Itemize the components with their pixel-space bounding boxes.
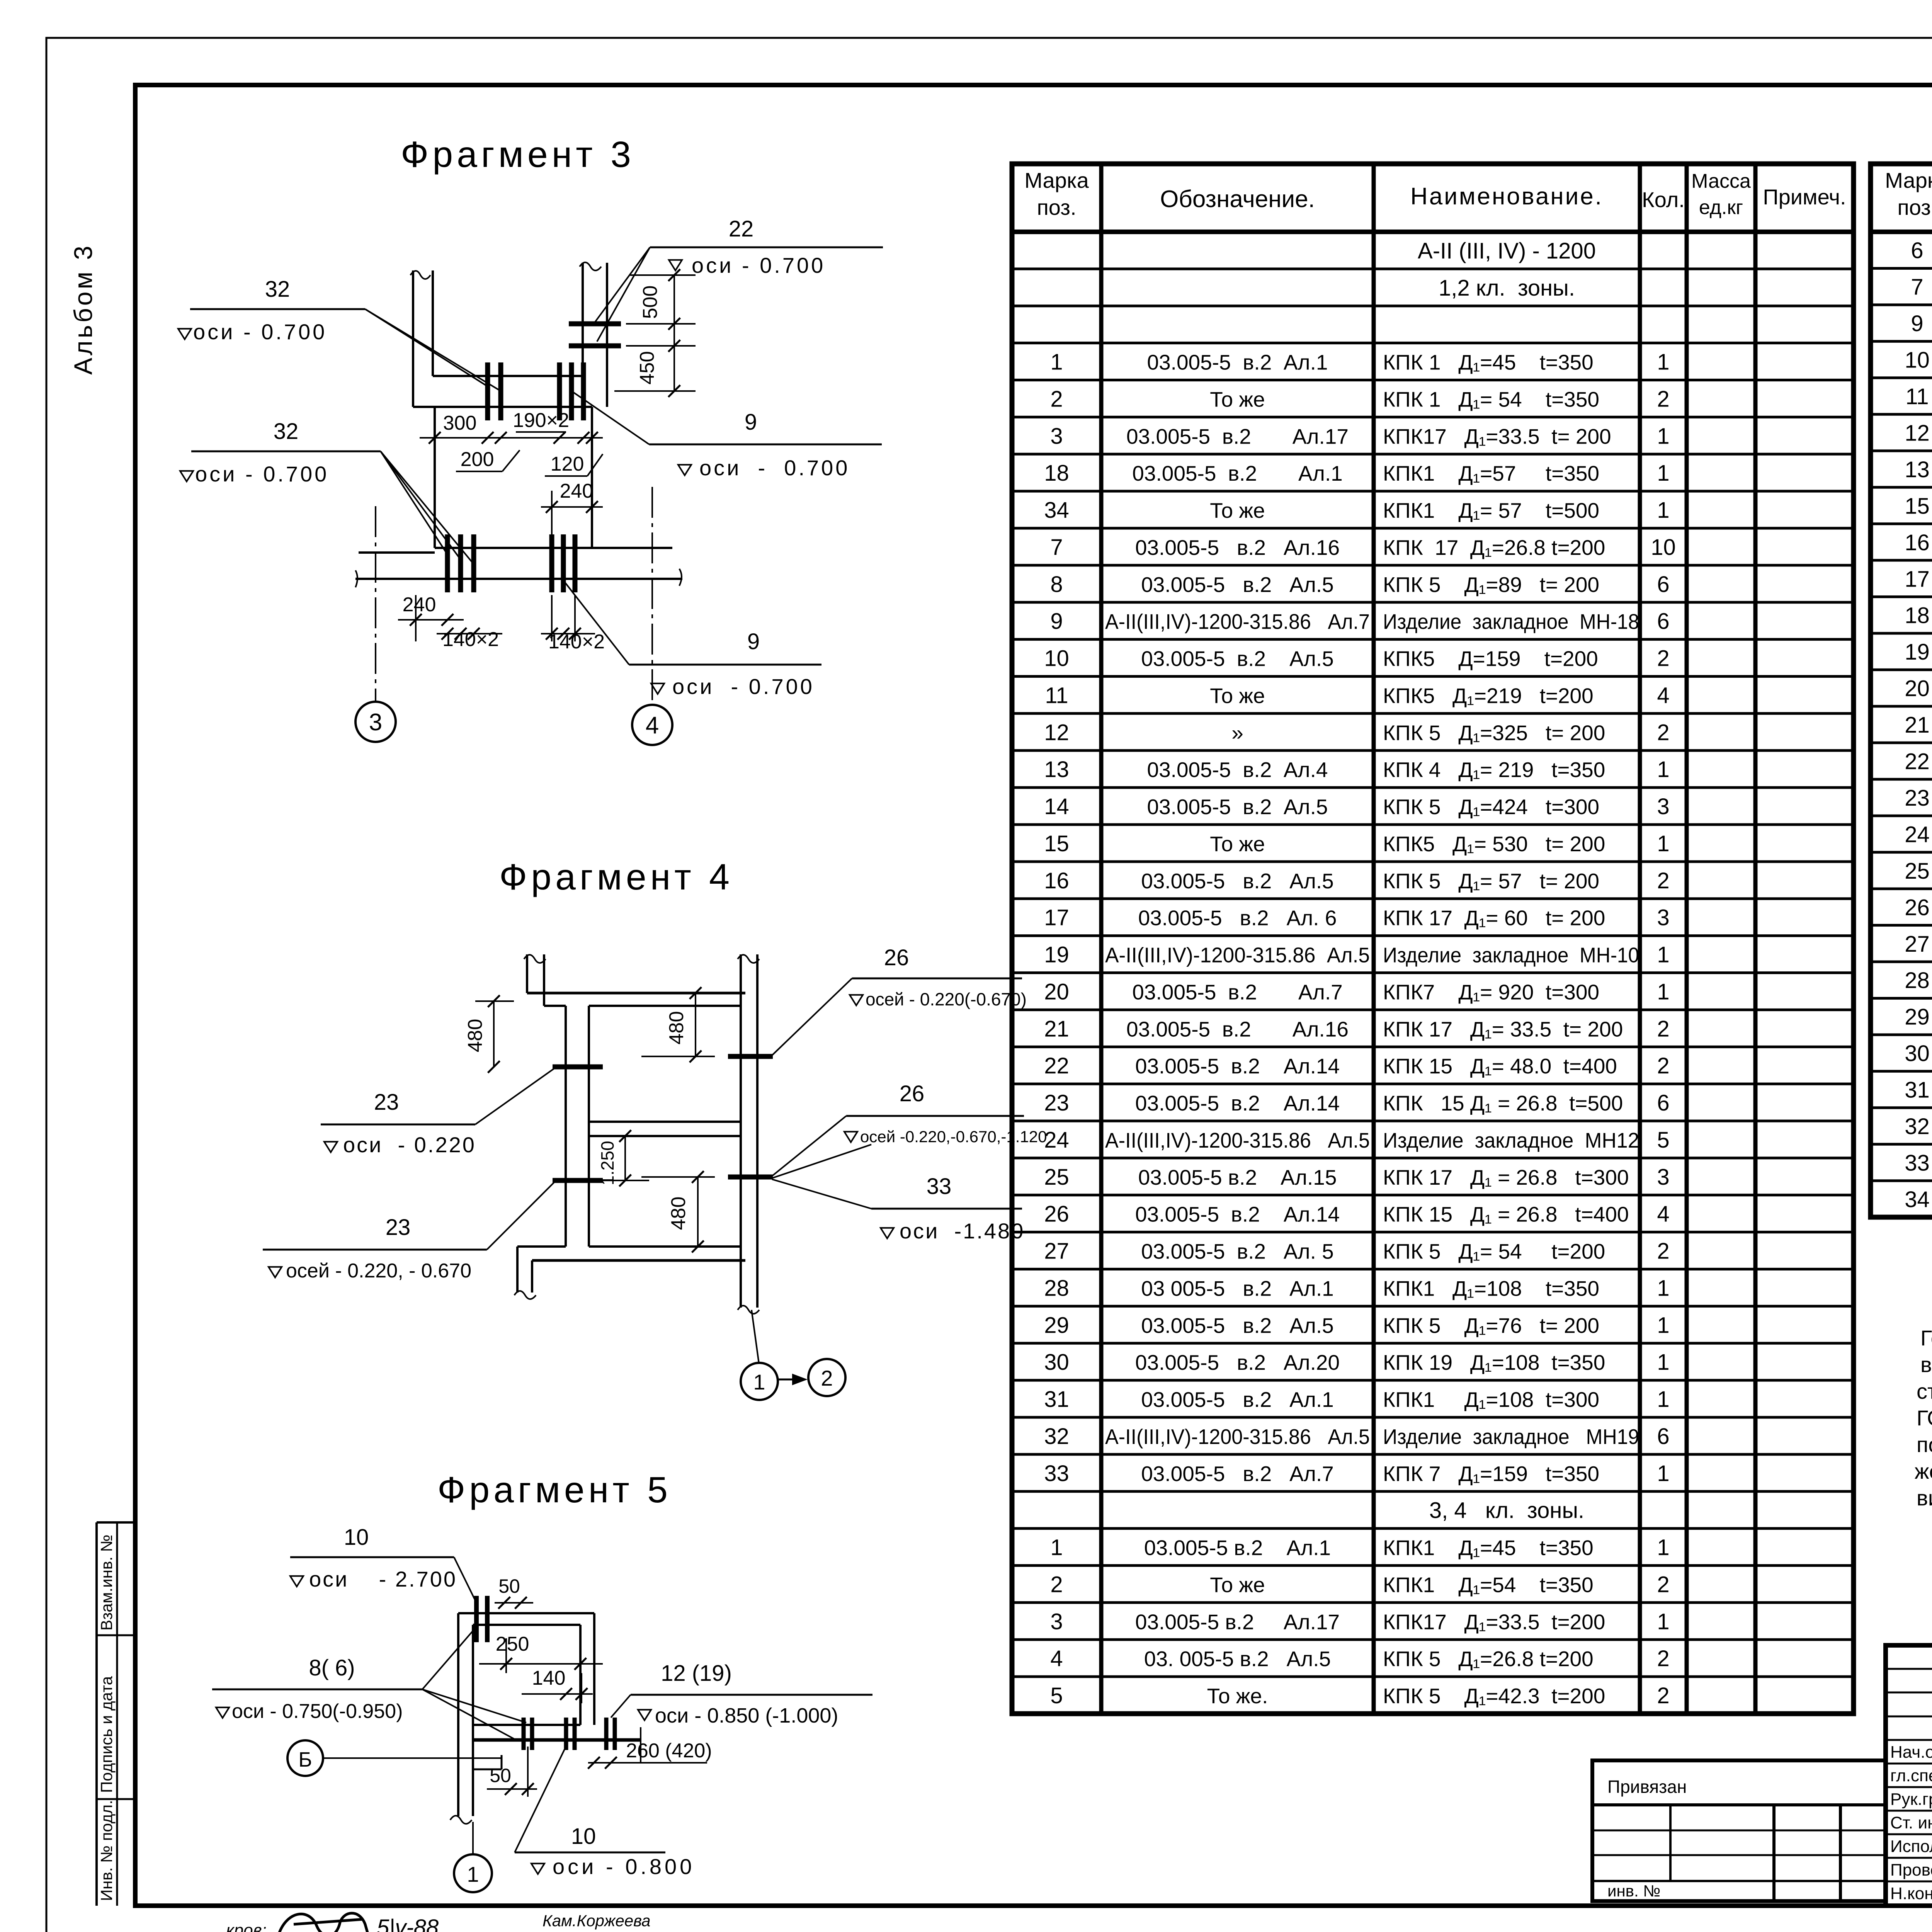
svg-text:2: 2 <box>1050 386 1063 412</box>
svg-text:А-II(III,IV)-1200-315.86 Ал.5: А-II(III,IV)-1200-315.86 Ал.5 <box>1105 943 1370 967</box>
svg-text:Изделие закладное МН19: Изделие закладное МН19 <box>1383 1425 1639 1449</box>
svg-text:21: 21 <box>1905 713 1930 738</box>
svg-text:То же: То же <box>1210 1573 1265 1597</box>
svg-text:26: 26 <box>884 945 909 970</box>
svg-text:31: 31 <box>1044 1387 1069 1412</box>
svg-text:оси - 0.700: оси - 0.700 <box>195 462 329 486</box>
frag3 horizontal dimension chain <box>420 437 603 439</box>
svg-text:03.005-5 в.2 Ал.5: 03.005-5 в.2 Ал.5 <box>1147 795 1328 819</box>
table header row line <box>1871 230 1932 234</box>
svg-text:03.005-5 в.2 Ал.5: 03.005-5 в.2 Ал.5 <box>1141 647 1334 671</box>
frag4 leader 26 upper <box>771 978 852 1056</box>
svg-text:КПК5 Д₁= 530 t= 200: КПК5 Д₁= 530 t= 200 <box>1383 832 1605 856</box>
svg-text:17: 17 <box>1044 905 1069 930</box>
svg-text:28: 28 <box>1044 1276 1069 1301</box>
svg-text:осей - 0.220(-0.670): осей - 0.220(-0.670) <box>866 989 1027 1009</box>
svg-text:оси - 2.700: оси - 2.700 <box>309 1567 457 1591</box>
svg-text:6: 6 <box>1657 609 1669 634</box>
svg-text:1: 1 <box>753 1370 765 1394</box>
svg-text:4: 4 <box>1657 683 1669 708</box>
svg-text:03.005-5 в.2 Ал.20: 03.005-5 в.2 Ал.20 <box>1135 1350 1340 1374</box>
svg-text:1: 1 <box>1657 423 1669 449</box>
left margin stacked cells <box>97 1521 135 1524</box>
svg-text:03.005-5 в.2 Ал.1: 03.005-5 в.2 Ал.1 <box>1144 1536 1331 1560</box>
svg-text:Примеч.: Примеч. <box>1763 185 1846 209</box>
svg-text:2: 2 <box>1657 1053 1669 1078</box>
svg-text:5: 5 <box>1657 1128 1669 1153</box>
frag4 middle-left wall <box>565 1006 567 1247</box>
svg-text:30: 30 <box>1905 1041 1930 1066</box>
privyazan block outer <box>1592 1760 1886 1901</box>
svg-text:1: 1 <box>1657 757 1669 782</box>
svg-text:КПК 17 Д₁= 60 t= 200: КПК 17 Д₁= 60 t= 200 <box>1383 906 1605 930</box>
svg-text:Н.контр.: Н.контр. <box>1890 1884 1932 1903</box>
svg-text:Взам.инв. №: Взам.инв. № <box>97 1534 116 1631</box>
svg-text:26: 26 <box>1905 895 1930 920</box>
frag3 rebar ticks bottom band left <box>445 534 450 592</box>
title block outer border <box>1886 1645 1932 1906</box>
svg-text:1: 1 <box>1657 461 1669 486</box>
svg-text:Изделие закладное МН-18: Изделие закладное МН-18 <box>1383 610 1639 634</box>
svg-text:14: 14 <box>1044 794 1069 819</box>
svg-text:КПК5 Д=159 t=200: КПК5 Д=159 t=200 <box>1383 647 1598 671</box>
svg-text:23: 23 <box>1044 1090 1069 1116</box>
privyazan grid <box>1669 1805 1672 1881</box>
svg-text:3, 4 кл. зоны.: 3, 4 кл. зоны. <box>1429 1498 1584 1523</box>
title block small top rows <box>1886 1668 1932 1670</box>
table row lines <box>1871 267 1932 270</box>
svg-text:оси -1.480: оси -1.480 <box>900 1219 1025 1243</box>
svg-text:1,2 кл. зоны.: 1,2 кл. зоны. <box>1439 276 1575 301</box>
privyazan cell line <box>1592 1803 1886 1806</box>
svg-text:03.005-5 в.2 Ал.1: 03.005-5 в.2 Ал.1 <box>1147 350 1328 374</box>
svg-text:3: 3 <box>1050 1609 1063 1634</box>
svg-text:То же: То же <box>1210 832 1265 856</box>
svg-text:Обозначение.: Обозначение. <box>1160 186 1315 213</box>
svg-text:КПК 5 Д₁= 54 t=200: КПК 5 Д₁= 54 t=200 <box>1383 1240 1605 1264</box>
svg-text:Ст. инж.: Ст. инж. <box>1890 1813 1932 1832</box>
svg-text:осей - 0.220, - 0.670: осей - 0.220, - 0.670 <box>286 1260 471 1282</box>
svg-text:25: 25 <box>1044 1165 1069 1190</box>
svg-text:Фрагмент 4: Фрагмент 4 <box>499 857 733 898</box>
svg-text:КПК 5 Д₁=424 t=300: КПК 5 Д₁=424 t=300 <box>1383 795 1599 819</box>
frag3 rebar ticks right wall <box>569 321 621 327</box>
svg-text:Марка: Марка <box>1885 168 1932 192</box>
frag4 top-left stub <box>526 954 528 993</box>
frag5 leader 12(19) <box>611 1695 631 1718</box>
svg-text:То же.: То же. <box>1207 1684 1268 1708</box>
svg-text:2: 2 <box>1657 1683 1669 1708</box>
svg-text:19: 19 <box>1044 942 1069 968</box>
svg-text:КПК5 Д₁=219 t=200: КПК5 Д₁=219 t=200 <box>1383 684 1594 707</box>
svg-text:КПК 5 Д₁=76 t= 200: КПК 5 Д₁=76 t= 200 <box>1383 1313 1599 1337</box>
svg-text:кров:: кров: <box>226 1921 267 1932</box>
svg-text:10: 10 <box>1651 535 1676 560</box>
svg-text:260 (420): 260 (420) <box>626 1740 712 1762</box>
svg-text:120: 120 <box>551 453 584 475</box>
svg-text:Альбом 3: Альбом 3 <box>69 243 97 375</box>
svg-text:19: 19 <box>1905 639 1930 665</box>
svg-text:вии: вии <box>1917 1486 1932 1510</box>
svg-text:9: 9 <box>1911 311 1923 336</box>
svg-text:4: 4 <box>646 712 659 739</box>
frag5 circle B <box>287 1740 323 1776</box>
svg-text:03.005-5 в.2 Ал.16: 03.005-5 в.2 Ал.16 <box>1135 536 1340 560</box>
svg-text:1: 1 <box>1657 979 1669 1004</box>
svg-text:Привязан: Привязан <box>1607 1777 1687 1797</box>
svg-text:КПК 19 Д₁=108 t=350: КПК 19 Д₁=108 t=350 <box>1383 1350 1605 1374</box>
svg-text:10: 10 <box>344 1525 369 1550</box>
svg-text:6: 6 <box>1657 572 1669 597</box>
svg-text:16: 16 <box>1044 868 1069 893</box>
svg-text:оси - 0.700: оси - 0.700 <box>692 253 825 277</box>
frag4 leader 33 <box>772 1179 871 1209</box>
svg-text:6: 6 <box>1657 1424 1669 1449</box>
frag4 axis line and circles 1-2 <box>752 1310 759 1363</box>
svg-text:3: 3 <box>1657 794 1669 819</box>
svg-text:9: 9 <box>747 629 760 654</box>
svg-text:11: 11 <box>1045 683 1068 708</box>
svg-text:поз.: поз. <box>1897 195 1932 219</box>
svg-text:выполнять: выполнять <box>1920 1352 1932 1377</box>
svg-text:5: 5 <box>1050 1683 1063 1708</box>
svg-text:КПК 15 Д₁ = 26.8 t=400: КПК 15 Д₁ = 26.8 t=400 <box>1383 1202 1629 1226</box>
svg-text:строительной: строительной <box>1917 1379 1932 1403</box>
svg-text:То же: То же <box>1210 387 1265 411</box>
svg-text:оси - 0.750(-0.950): оси - 0.750(-0.950) <box>232 1700 403 1723</box>
svg-text:03.005-5 в.2 Ал.17: 03.005-5 в.2 Ал.17 <box>1135 1610 1340 1634</box>
svg-text:12 (19): 12 (19) <box>661 1661 732 1686</box>
svg-text:Изделие закладное МН12: Изделие закладное МН12 <box>1383 1128 1639 1152</box>
svg-text:оси - 0.700: оси - 0.700 <box>193 320 327 344</box>
svg-text:КПК 15 Д₁= 48.0 t=400: КПК 15 Д₁= 48.0 t=400 <box>1383 1054 1617 1078</box>
svg-text:3: 3 <box>1657 905 1669 930</box>
svg-text:27: 27 <box>1905 932 1930 957</box>
frag3 axis 4 line <box>651 487 653 705</box>
svg-text:250: 250 <box>496 1633 529 1655</box>
svg-text:КПК 5 Д₁=26.8 t=200: КПК 5 Д₁=26.8 t=200 <box>1383 1647 1594 1671</box>
frag5 right wall upper <box>579 1625 582 1725</box>
svg-text:1: 1 <box>1657 498 1669 523</box>
svg-text:33: 33 <box>1905 1150 1930 1175</box>
frag4 leader 26 lower <box>771 1116 846 1177</box>
frag3 axis circle 4 <box>632 705 672 745</box>
svg-text:А-II(III,IV)-1200-315.86 Ал.: А-II(III,IV)-1200-315.86 Ал.5 <box>1105 1425 1370 1449</box>
svg-text:железобетонных: железобетонных <box>1915 1459 1932 1483</box>
svg-text:03.005-5 в.2 Ал.1: 03.005-5 в.2 Ал.1 <box>1141 1388 1334 1412</box>
frag5 B-step stub <box>501 1755 503 1769</box>
svg-text:2: 2 <box>1657 868 1669 893</box>
svg-text:25: 25 <box>1905 859 1930 884</box>
svg-text:30: 30 <box>1044 1350 1069 1375</box>
table header row line <box>1012 230 1854 234</box>
svg-text:осей -0.220,-0.670,-1.120: осей -0.220,-0.670,-1.120 <box>860 1128 1047 1146</box>
svg-text:50: 50 <box>490 1765 511 1786</box>
title block signature row lines <box>1886 1763 1932 1765</box>
frag4 bottom band <box>589 1245 741 1248</box>
svg-text:3: 3 <box>1050 423 1063 449</box>
frag4 top band <box>527 992 745 995</box>
frag3 top band <box>433 375 583 377</box>
frag3 right wall <box>582 263 584 376</box>
svg-text:03.005-5 в.2 Ал.5: 03.005-5 в.2 Ал.5 <box>1141 573 1334 597</box>
frag3 leader 32 lower <box>381 451 447 554</box>
svg-text:6: 6 <box>1911 238 1923 263</box>
svg-text:03.005-5 в.2 Ал.4: 03.005-5 в.2 Ал.4 <box>1147 758 1328 782</box>
svg-text:10: 10 <box>1044 646 1069 671</box>
svg-text:2: 2 <box>1657 1016 1669 1041</box>
svg-text:2: 2 <box>1657 386 1669 412</box>
svg-text:оси - 0.850 (-1.000): оси - 0.850 (-1.000) <box>655 1704 838 1727</box>
svg-text:15: 15 <box>1905 493 1930 519</box>
svg-text:03.005-5 в.2 Ал. 6: 03.005-5 в.2 Ал. 6 <box>1138 906 1337 930</box>
svg-text:03.005-5 в.2 Ал.14: 03.005-5 в.2 Ал.14 <box>1135 1202 1340 1226</box>
svg-text:23: 23 <box>386 1215 411 1240</box>
svg-text:оси - 0.220: оси - 0.220 <box>343 1133 476 1157</box>
table outer border <box>1012 164 1854 1714</box>
svg-text:32: 32 <box>265 277 290 302</box>
svg-text:оси - 0.800: оси - 0.800 <box>553 1854 695 1879</box>
svg-text:Подпись и дата: Подпись и дата <box>97 1676 116 1793</box>
svg-text:Инв. № подл.: Инв. № подл. <box>97 1800 116 1901</box>
svg-text:1: 1 <box>1657 1313 1669 1338</box>
svg-text:1.250: 1.250 <box>597 1141 617 1185</box>
svg-text:То же: То же <box>1210 684 1265 707</box>
table row lines <box>1012 267 1854 270</box>
svg-text:КПК 5 Д₁= 57 t= 200: КПК 5 Д₁= 57 t= 200 <box>1383 869 1599 893</box>
svg-text:33: 33 <box>927 1174 952 1199</box>
svg-text:1: 1 <box>1657 942 1669 968</box>
svg-text:КПК 5 Д₁=42.3 t=200: КПК 5 Д₁=42.3 t=200 <box>1383 1684 1605 1708</box>
svg-text:200: 200 <box>461 448 494 471</box>
svg-text:26: 26 <box>900 1081 925 1106</box>
svg-text:гл.спец.: гл.спец. <box>1890 1766 1932 1785</box>
svg-text:оси - 0.700: оси - 0.700 <box>672 674 815 699</box>
svg-text:03.005-5 в.2 Ал.5: 03.005-5 в.2 Ал.5 <box>1141 1313 1334 1337</box>
svg-text:15: 15 <box>1044 831 1069 856</box>
svg-text:23: 23 <box>374 1090 399 1115</box>
svg-text:Кам.Коржеева: Кам.Коржеева <box>543 1912 651 1930</box>
svg-text:6: 6 <box>1657 1090 1669 1116</box>
svg-text:450: 450 <box>636 351 658 385</box>
table column lines <box>1099 164 1104 1714</box>
svg-text:КПК 15 Д₁ = 26.8 t=500: КПК 15 Д₁ = 26.8 t=500 <box>1383 1091 1623 1115</box>
svg-text:КПК1 Д₁=54 t=350: КПК1 Д₁=54 t=350 <box>1383 1573 1594 1597</box>
svg-text:КПК 17 Д₁= 33.5 t= 200: КПК 17 Д₁= 33.5 t= 200 <box>1383 1017 1623 1041</box>
svg-text:КПК1 Д₁=108 t=350: КПК1 Д₁=108 t=350 <box>1383 1276 1599 1300</box>
svg-text:Рук.гр: Рук.гр <box>1890 1790 1932 1809</box>
svg-text:»: » <box>1231 721 1243 745</box>
svg-text:16: 16 <box>1905 530 1930 555</box>
svg-text:Провер: Провер <box>1890 1861 1932 1879</box>
svg-text:22: 22 <box>729 216 754 241</box>
svg-text:2: 2 <box>1657 1572 1669 1597</box>
svg-text:поз.: поз. <box>1037 195 1076 219</box>
svg-text:КПК1 Д₁=57 t=350: КПК1 Д₁=57 t=350 <box>1383 461 1599 485</box>
svg-text:22: 22 <box>1905 749 1930 774</box>
svg-text:300: 300 <box>443 412 477 434</box>
frag3 left wall <box>412 270 414 407</box>
svg-text:1: 1 <box>467 1862 479 1886</box>
svg-text:18: 18 <box>1905 603 1930 628</box>
frag3 leader 9 bottom <box>563 580 629 665</box>
svg-text:29: 29 <box>1905 1005 1930 1030</box>
svg-text:КПК1 Д₁=108 t=300: КПК1 Д₁=108 t=300 <box>1383 1388 1599 1412</box>
svg-text:КПК 7 Д₁=159 t=350: КПК 7 Д₁=159 t=350 <box>1383 1462 1599 1486</box>
svg-text:9: 9 <box>1050 609 1063 634</box>
svg-text:9: 9 <box>745 410 757 435</box>
svg-text:КПК 5 Д₁=89 t= 200: КПК 5 Д₁=89 t= 200 <box>1383 573 1599 597</box>
svg-text:1: 1 <box>1050 350 1063 375</box>
frag5 top band <box>458 1612 594 1614</box>
svg-text:1: 1 <box>1657 350 1669 375</box>
svg-text:24: 24 <box>1905 822 1930 847</box>
svg-text:29: 29 <box>1044 1313 1069 1338</box>
frag3 inner rect <box>434 407 436 548</box>
svg-text:2: 2 <box>1657 1646 1669 1671</box>
frag3 rebar ticks bottom band right <box>549 534 554 592</box>
frag4 bottom-left stub <box>517 1245 566 1248</box>
svg-text:12: 12 <box>1905 420 1930 446</box>
frag4 leader 23 upper <box>475 1068 555 1124</box>
svg-text:34: 34 <box>1044 498 1069 523</box>
svg-text:Марка: Марка <box>1024 168 1089 192</box>
svg-text:Наименование.: Наименование. <box>1410 183 1603 210</box>
svg-text:21: 21 <box>1044 1016 1069 1041</box>
svg-text:03.005-5 в.2 Ал.16: 03.005-5 в.2 Ал.16 <box>1126 1017 1349 1041</box>
svg-text:КПК1 Д₁= 57 t=500: КПК1 Д₁= 57 t=500 <box>1383 498 1599 522</box>
frag3 axis 3 line <box>375 506 376 702</box>
table outer border <box>1871 164 1932 1217</box>
frag3 rebar ticks top band right <box>557 362 562 420</box>
frag5 leader 10 top <box>454 1557 476 1603</box>
svg-text:Масса: Масса <box>1691 170 1751 192</box>
frag4 rebar ticks right wall <box>728 1054 773 1059</box>
svg-text:33: 33 <box>1044 1461 1069 1486</box>
svg-text:инв. №: инв. № <box>1607 1882 1660 1900</box>
svg-text:480: 480 <box>665 1011 688 1045</box>
frag5 rebar ticks mid band <box>522 1718 526 1750</box>
svg-text:500: 500 <box>639 286 662 319</box>
frag4 right wall <box>740 954 742 1308</box>
svg-text:2: 2 <box>1657 720 1669 745</box>
svg-text:13: 13 <box>1905 457 1930 482</box>
svg-text:03.005-5 в.2 Ал.7: 03.005-5 в.2 Ал.7 <box>1132 980 1342 1004</box>
svg-text:18: 18 <box>1044 461 1069 486</box>
svg-text:8( 6): 8( 6) <box>309 1655 355 1680</box>
svg-text:по: по <box>1917 1432 1932 1457</box>
svg-text:27: 27 <box>1044 1239 1069 1264</box>
svg-text:12: 12 <box>1044 720 1069 745</box>
svg-text:КПК17 Д₁=33.5 t=200: КПК17 Д₁=33.5 t=200 <box>1383 1610 1605 1634</box>
svg-text:2: 2 <box>1657 646 1669 671</box>
svg-text:24: 24 <box>1044 1128 1069 1153</box>
frag4 lower rect <box>589 1135 741 1137</box>
svg-text:оси - 0.700: оси - 0.700 <box>699 456 850 480</box>
svg-text:Изделие закладное МН-10: Изделие закладное МН-10 <box>1383 943 1639 967</box>
frag5 left wall <box>457 1613 459 1816</box>
svg-text:2: 2 <box>821 1366 833 1390</box>
svg-text:Исполн.: Исполн. <box>1890 1837 1932 1856</box>
svg-text:03.005-5 в.2 Ал.1: 03.005-5 в.2 Ал.1 <box>1132 461 1342 485</box>
svg-text:Б: Б <box>298 1748 312 1771</box>
frag3 leader 22 <box>594 247 650 323</box>
svg-text:22: 22 <box>1044 1053 1069 1078</box>
svg-text:20: 20 <box>1044 979 1069 1004</box>
svg-text:3: 3 <box>369 709 382 736</box>
frag5 leader 10 bottom <box>515 1745 567 1852</box>
frag4 leader 23 lower <box>487 1182 555 1250</box>
svg-text:140: 140 <box>532 1667 566 1689</box>
svg-text:КПК17 Д₁=33.5 t= 200: КПК17 Д₁=33.5 t= 200 <box>1383 424 1611 448</box>
svg-text:2: 2 <box>1050 1572 1063 1597</box>
svg-text:1: 1 <box>1657 1276 1669 1301</box>
svg-text:31: 31 <box>1905 1078 1930 1103</box>
svg-text:10: 10 <box>571 1824 596 1849</box>
svg-text:2: 2 <box>1657 1239 1669 1264</box>
svg-text:03.005-5 в.2 Ал.5: 03.005-5 в.2 Ал.5 <box>1141 869 1334 893</box>
svg-text:КПК 1 Д₁= 54 t=350: КПК 1 Д₁= 54 t=350 <box>1383 387 1599 411</box>
svg-text:28: 28 <box>1905 968 1930 993</box>
svg-text:03.005-5 в.2 Ал.15: 03.005-5 в.2 Ал.15 <box>1138 1165 1337 1189</box>
svg-text:КПК 17 Д₁ = 26.8 t=300: КПК 17 Д₁ = 26.8 t=300 <box>1383 1165 1629 1189</box>
svg-text:Герметизацию: Герметизацию <box>1920 1326 1932 1350</box>
svg-text:ГОСТ 5. 1011-71/: ГОСТ 5. 1011-71/ <box>1917 1406 1932 1430</box>
svg-text:КПК7 Д₁= 920 t=300: КПК7 Д₁= 920 t=300 <box>1383 980 1599 1004</box>
svg-text:1: 1 <box>1657 831 1669 856</box>
frag3 bottom band <box>359 551 435 554</box>
svg-text:480: 480 <box>667 1197 690 1230</box>
svg-text:Нач.отд: Нач.отд <box>1890 1743 1932 1762</box>
svg-text:1: 1 <box>1657 1387 1669 1412</box>
svg-text:03.005-5 в.2 Ал.14: 03.005-5 в.2 Ал.14 <box>1135 1054 1340 1078</box>
svg-text:03.005-5 в.2 Ал.17: 03.005-5 в.2 Ал.17 <box>1126 424 1349 448</box>
svg-text:7: 7 <box>1911 275 1923 300</box>
svg-text:4: 4 <box>1050 1646 1063 1671</box>
svg-text:4: 4 <box>1657 1202 1669 1227</box>
svg-text:03. 005-5 в.2 Ал.5: 03. 005-5 в.2 Ал.5 <box>1144 1647 1331 1671</box>
svg-text:5|v-88: 5|v-88 <box>377 1915 439 1932</box>
svg-text:03 005-5 в.2 Ал.1: 03 005-5 в.2 Ал.1 <box>1141 1276 1334 1300</box>
svg-text:А-II (III, IV) - 1200: А-II (III, IV) - 1200 <box>1418 238 1596 264</box>
svg-text:10: 10 <box>1905 348 1930 373</box>
frag5 rebar ticks top <box>474 1596 479 1642</box>
frag4 rebar ticks left wall <box>553 1065 603 1070</box>
svg-text:480: 480 <box>464 1019 486 1053</box>
svg-text:КПК 5 Д₁=325 t= 200: КПК 5 Д₁=325 t= 200 <box>1383 721 1605 745</box>
svg-text:1: 1 <box>1657 1350 1669 1375</box>
frag3 leader 9 middle <box>571 391 649 444</box>
svg-text:Кол.: Кол. <box>1642 187 1685 212</box>
svg-text:1: 1 <box>1657 1609 1669 1634</box>
svg-text:Фрагмент 3: Фрагмент 3 <box>401 134 635 175</box>
svg-text:8: 8 <box>1050 572 1063 597</box>
svg-text:11: 11 <box>1905 384 1929 409</box>
svg-text:То же: То же <box>1210 498 1265 522</box>
frag5 leader 8(6) <box>422 1627 476 1689</box>
svg-text:34: 34 <box>1905 1187 1930 1212</box>
svg-text:32: 32 <box>274 419 299 444</box>
frag5 axis circle 1 <box>472 1822 474 1854</box>
svg-text:20: 20 <box>1905 676 1930 701</box>
svg-text:03.005-5 в.2 Ал.7: 03.005-5 в.2 Ал.7 <box>1141 1462 1334 1486</box>
svg-text:КПК 4 Д₁= 219 t=350: КПК 4 Д₁= 219 t=350 <box>1383 758 1605 782</box>
svg-text:КПК 17 Д₁=26.8 t=200: КПК 17 Д₁=26.8 t=200 <box>1383 536 1605 560</box>
svg-text:17: 17 <box>1905 566 1930 592</box>
svg-text:ед.кг: ед.кг <box>1699 196 1743 219</box>
frag3 leader 32 upper <box>365 309 488 386</box>
svg-text:32: 32 <box>1044 1424 1069 1449</box>
